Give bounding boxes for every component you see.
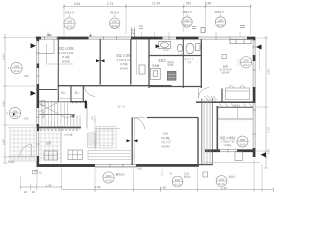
svg-text:洗濯機: 洗濯機 bbox=[152, 64, 160, 68]
svg-text:W2440: W2440 bbox=[222, 71, 230, 74]
svg-text:1.98: 1.98 bbox=[45, 183, 51, 187]
svg-text:2.73: 2.73 bbox=[267, 127, 271, 133]
svg-text:W-16: W-16 bbox=[240, 143, 247, 146]
svg-text:2.96: 2.96 bbox=[94, 185, 100, 189]
svg-text:1955: 1955 bbox=[240, 139, 246, 142]
svg-text:1955: 1955 bbox=[112, 20, 118, 23]
svg-text:W-16: W-16 bbox=[112, 25, 119, 28]
svg-text:9.62: 9.62 bbox=[184, 173, 189, 176]
svg-text:1955: 1955 bbox=[12, 110, 18, 113]
svg-text:(6.0帖): (6.0帖) bbox=[62, 55, 70, 59]
svg-text:4.55: 4.55 bbox=[267, 149, 271, 155]
svg-text:2.10: 2.10 bbox=[221, 186, 227, 190]
svg-text:軒高さ: 軒高さ bbox=[229, 175, 237, 179]
svg-text:40: 40 bbox=[24, 190, 28, 194]
svg-text:トイレ: トイレ bbox=[177, 53, 185, 56]
svg-text:1.82: 1.82 bbox=[2, 139, 6, 145]
svg-text:1955: 1955 bbox=[184, 19, 190, 22]
svg-text:910: 910 bbox=[186, 1, 192, 5]
svg-text:11.49: 11.49 bbox=[152, 1, 160, 5]
svg-text:洋室 1(洋間): 洋室 1(洋間) bbox=[58, 46, 74, 51]
svg-text:物入: 物入 bbox=[234, 103, 239, 107]
svg-text:3.64: 3.64 bbox=[2, 54, 6, 60]
svg-text:1955: 1955 bbox=[218, 19, 224, 22]
svg-text:W750: W750 bbox=[167, 65, 174, 67]
svg-text:W-16: W-16 bbox=[12, 115, 19, 118]
svg-text:W-16: W-16 bbox=[218, 24, 225, 27]
svg-text:(4.5帖): (4.5帖) bbox=[120, 62, 128, 66]
svg-text:W750: W750 bbox=[163, 50, 169, 52]
svg-text:1955: 1955 bbox=[67, 21, 73, 24]
svg-text:1.48: 1.48 bbox=[160, 186, 166, 190]
svg-text:1.5M: 1.5M bbox=[23, 76, 28, 78]
svg-text:2930: 2930 bbox=[106, 175, 112, 178]
svg-text:洋室 2(洋間): 洋室 2(洋間) bbox=[116, 53, 132, 58]
svg-text:4.55: 4.55 bbox=[2, 101, 6, 107]
svg-text:バス: バス bbox=[186, 60, 192, 64]
svg-text:W2440: W2440 bbox=[161, 144, 170, 148]
svg-text:2.730×2.730: 2.730×2.730 bbox=[221, 141, 236, 144]
svg-text:W-16: W-16 bbox=[184, 24, 191, 27]
svg-text:W2440: W2440 bbox=[62, 59, 71, 63]
svg-text:W2440: W2440 bbox=[120, 66, 129, 70]
svg-text:W-16: W-16 bbox=[243, 64, 250, 67]
svg-text:5.46: 5.46 bbox=[205, 1, 212, 5]
svg-text:(4.5帖): (4.5帖) bbox=[224, 143, 232, 147]
svg-text:洋室 3(洋間): 洋室 3(洋間) bbox=[220, 135, 236, 140]
svg-text:洗面室: 洗面室 bbox=[158, 59, 166, 63]
svg-text:W16 II: W16 II bbox=[65, 11, 74, 15]
svg-text:最高高さ: 最高高さ bbox=[116, 172, 127, 176]
svg-text:2.730×2.730: 2.730×2.730 bbox=[117, 58, 132, 62]
svg-text:W16 II: W16 II bbox=[110, 11, 119, 15]
svg-text:(16.0帖): (16.0帖) bbox=[161, 136, 171, 140]
svg-text:3.64: 3.64 bbox=[74, 2, 81, 6]
svg-text:1955: 1955 bbox=[14, 65, 20, 68]
svg-text:W-16: W-16 bbox=[175, 183, 182, 186]
svg-text:玄関: 玄関 bbox=[46, 141, 52, 145]
svg-text:2.730×3.640: 2.730×3.640 bbox=[59, 51, 74, 55]
svg-text:2930: 2930 bbox=[219, 178, 225, 181]
svg-text:40: 40 bbox=[32, 190, 36, 194]
svg-text:ホール: ホール bbox=[118, 105, 126, 109]
svg-text:4.50: 4.50 bbox=[24, 119, 29, 121]
svg-text:2930: 2930 bbox=[175, 179, 181, 182]
svg-text:LDK: LDK bbox=[163, 132, 169, 136]
svg-text:W-16: W-16 bbox=[67, 25, 74, 28]
svg-text:1955: 1955 bbox=[243, 60, 249, 63]
svg-text:W-16: W-16 bbox=[14, 70, 21, 73]
svg-text:2.73: 2.73 bbox=[107, 2, 114, 6]
svg-text:リビング: リビング bbox=[160, 140, 171, 144]
svg-text:3.64: 3.64 bbox=[267, 69, 271, 75]
svg-text:W-16: W-16 bbox=[106, 179, 113, 182]
